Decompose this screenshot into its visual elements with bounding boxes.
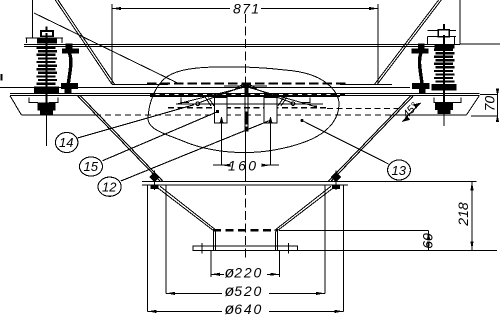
svg-text:871: 871 (233, 1, 259, 17)
svg-text:14: 14 (59, 135, 73, 150)
svg-text:ø220: ø220 (225, 264, 262, 281)
svg-text:60: 60 (420, 233, 436, 249)
svg-text:13: 13 (392, 163, 407, 178)
svg-text:218: 218 (455, 202, 471, 227)
svg-text:ø520: ø520 (225, 283, 262, 300)
svg-text:12: 12 (102, 179, 117, 194)
svg-text:15: 15 (84, 159, 99, 174)
svg-text:160: 160 (228, 157, 256, 173)
svg-text:70: 70 (482, 96, 498, 112)
svg-text:ø640: ø640 (225, 301, 262, 318)
